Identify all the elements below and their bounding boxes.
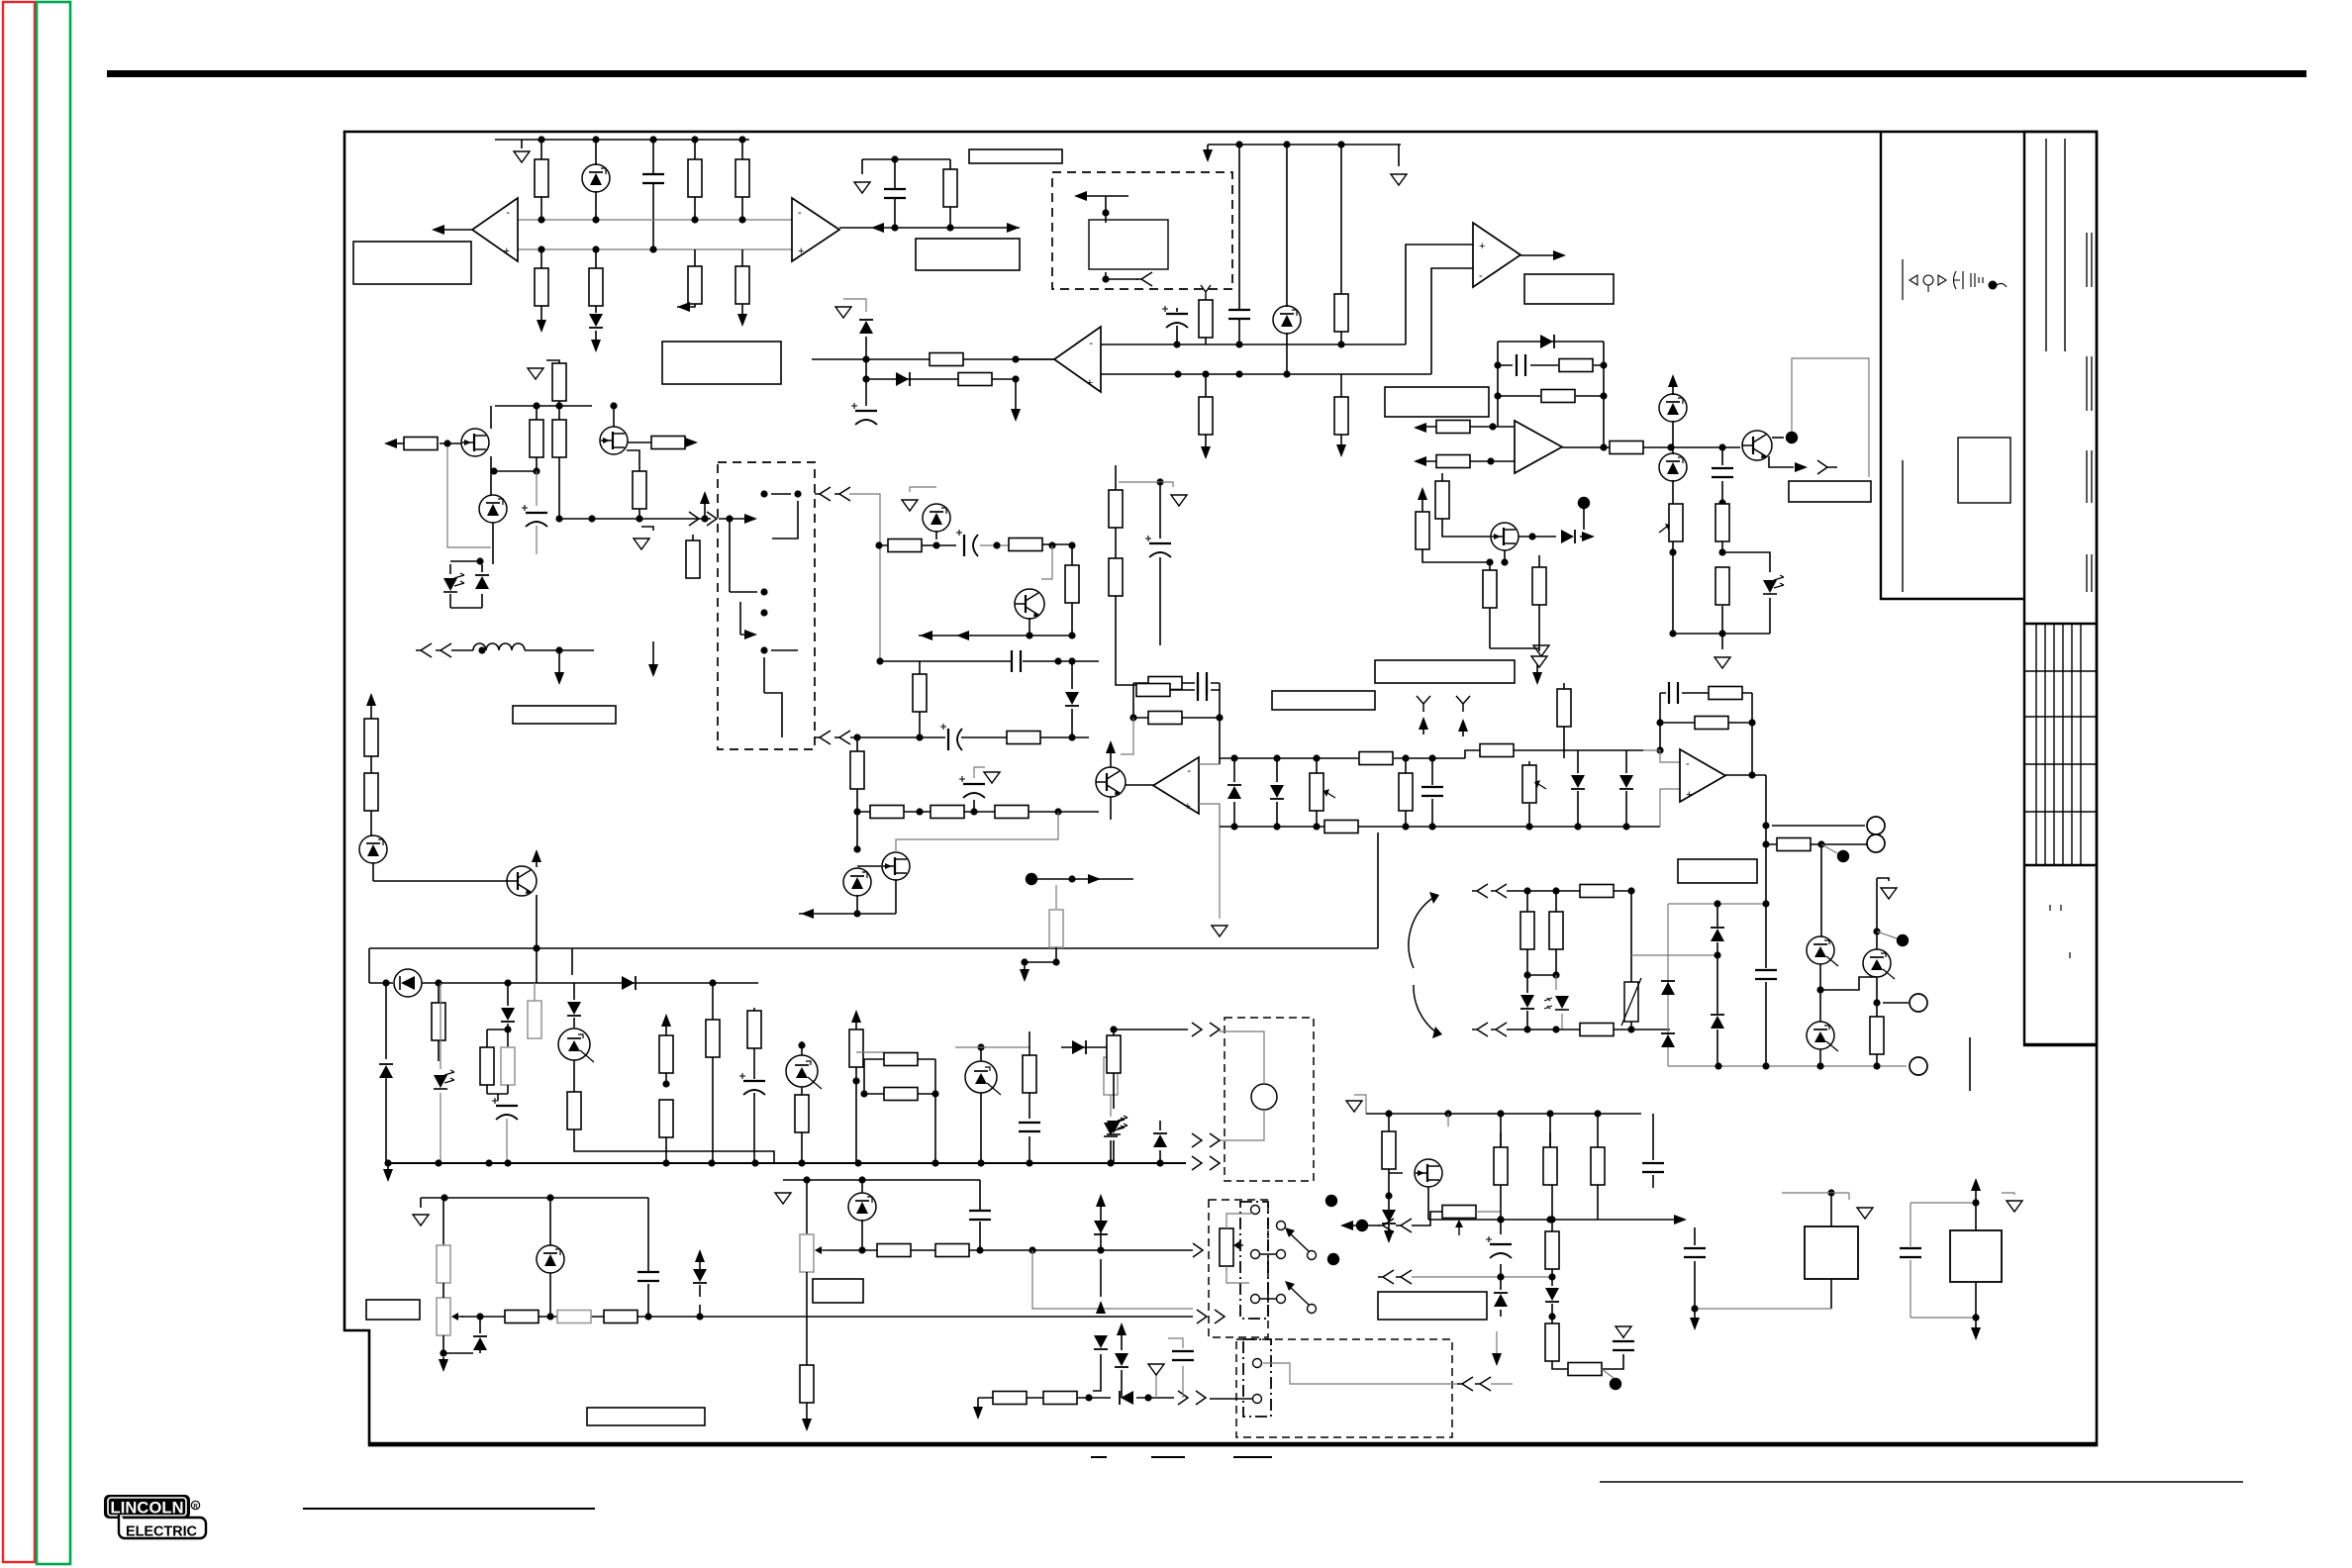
diode D20 [473, 1336, 487, 1350]
wire [856, 737, 858, 812]
wire [895, 880, 897, 914]
transient diode D27 [1115, 1353, 1128, 1367]
footer ticks [1091, 1456, 1272, 1458]
svg-text:-: - [1686, 758, 1690, 770]
junction [794, 490, 801, 497]
wire [1116, 465, 1136, 685]
resistor R18 [1541, 390, 1575, 403]
dashed enclosure [1052, 172, 1232, 289]
node [1325, 1195, 1337, 1207]
wire [704, 497, 706, 519]
wire [1412, 1212, 1442, 1225]
junction [1546, 1110, 1553, 1117]
zener D3 [1273, 306, 1301, 334]
label box [662, 342, 781, 384]
resistor R56 [1104, 1057, 1118, 1095]
wire [422, 982, 758, 984]
cable arc [1414, 985, 1436, 1032]
op-amp U4 [1054, 327, 1101, 392]
wire U1 output [436, 229, 472, 231]
arrow [956, 631, 969, 640]
potentiometer R57b [437, 1298, 450, 1335]
pot wiper [1327, 793, 1335, 798]
resistor R27 [651, 437, 685, 449]
wire [1671, 446, 1740, 448]
potentiometer R20 [1669, 504, 1683, 541]
junction [760, 588, 767, 595]
pot wiper [1458, 1224, 1460, 1235]
op-amp U2 [792, 198, 839, 261]
junction [1627, 887, 1634, 894]
wire feedback [1133, 683, 1220, 758]
wire [1344, 1225, 1380, 1226]
junction [1656, 719, 1663, 726]
wire [421, 1198, 648, 1208]
resistor R21 [1715, 504, 1729, 541]
wire [1447, 1114, 1449, 1127]
wire [1226, 1266, 1249, 1283]
arrow [802, 1419, 812, 1431]
junction [1129, 714, 1136, 721]
wire [1159, 1121, 1161, 1163]
junction [751, 1159, 758, 1166]
connector pin [1210, 1156, 1220, 1170]
label box [1524, 274, 1614, 304]
junction [662, 1159, 669, 1166]
polarized capacitor C5 [851, 403, 877, 425]
resistor R74 [1382, 1131, 1396, 1169]
resistor R45 [528, 1001, 541, 1038]
wire [641, 527, 653, 531]
junction [1552, 887, 1559, 894]
wire [828, 1249, 1193, 1251]
module box [1805, 1226, 1858, 1279]
wire [1159, 482, 1161, 645]
connector pin [834, 487, 850, 501]
junction [1574, 823, 1581, 830]
connector Y [1417, 696, 1430, 712]
junction [1156, 478, 1163, 485]
resistor R43 [480, 1047, 494, 1085]
connector pin [1197, 1310, 1207, 1323]
resistor R53 [884, 1053, 918, 1066]
junction [1714, 900, 1720, 907]
junction [1029, 1246, 1035, 1253]
junction [1594, 1110, 1601, 1117]
junction [1548, 1216, 1555, 1223]
transient diode D22 [693, 1269, 707, 1283]
switch contact [1277, 1250, 1286, 1259]
junction [1691, 1305, 1698, 1312]
svg-text:+: + [1087, 377, 1093, 389]
label box [1789, 481, 1871, 502]
arrow [1020, 969, 1029, 982]
wire [536, 855, 538, 983]
wire [540, 140, 542, 220]
wire [1239, 145, 1341, 309]
wire [694, 140, 696, 220]
resistor R14 [958, 373, 992, 386]
resistor R44 [501, 1047, 515, 1085]
arrow [532, 849, 541, 862]
junction [798, 1159, 805, 1166]
connector Y [1456, 696, 1470, 712]
arrow [1074, 191, 1087, 201]
op-amp U5 [1515, 421, 1562, 473]
diode D26 [1120, 1391, 1133, 1405]
junction [1144, 1394, 1151, 1401]
wire [1549, 1114, 1551, 1147]
title column inner line [2064, 139, 2066, 351]
top rule [107, 70, 2306, 77]
wire U5 output [1562, 446, 1671, 448]
wire [741, 249, 743, 319]
wire [806, 1180, 808, 1234]
arrow [1414, 456, 1426, 466]
wire [1538, 648, 1540, 651]
wire [1428, 1219, 1681, 1221]
svg-text:-: - [1187, 765, 1191, 777]
junction [931, 1159, 938, 1166]
label box [1375, 660, 1515, 683]
diode D16 [567, 1002, 581, 1016]
zener D23 [848, 1193, 876, 1221]
wire [536, 526, 538, 554]
revision tick [2087, 554, 2092, 592]
label box [813, 1279, 863, 1303]
junction [555, 402, 562, 409]
transistor Q5 [1015, 589, 1044, 619]
wire [1722, 552, 1770, 572]
arrow [1971, 1327, 1981, 1340]
footer rule left [303, 1508, 595, 1510]
connector pin [1457, 1377, 1473, 1391]
thyristor SCR3 [965, 1061, 1001, 1095]
arrow [1690, 1318, 1700, 1330]
connector pin [1215, 1310, 1225, 1323]
resistor R24 [404, 438, 438, 450]
junction [876, 657, 883, 664]
junction [592, 245, 599, 252]
ground [775, 1193, 791, 1204]
diode D34 [1619, 775, 1633, 789]
junction [1548, 1273, 1555, 1280]
wire [935, 531, 937, 539]
node [1837, 850, 1849, 862]
wire rail [1220, 826, 1465, 828]
wire [1527, 974, 1556, 976]
junction [1528, 533, 1535, 539]
junction [1283, 370, 1290, 377]
resistor R12 [1334, 397, 1348, 435]
wire [978, 1397, 1174, 1399]
title column inner line [2045, 139, 2047, 351]
node [1026, 873, 1037, 885]
wire [806, 1403, 808, 1423]
optocoupler LED [1107, 1116, 1127, 1134]
capacitor C10 [1012, 650, 1021, 672]
capacitor C1 [642, 174, 664, 183]
arrow [744, 630, 757, 639]
wire [1199, 764, 1220, 827]
resistor R22 [1715, 567, 1729, 605]
terminal [1910, 994, 1927, 1012]
resistor R46 [567, 1092, 581, 1129]
legend circle glyph [1923, 275, 1933, 285]
connector pin [707, 512, 717, 526]
wire op-amp input net [518, 248, 792, 250]
wire [1660, 789, 1680, 827]
capacitor C24 [1669, 682, 1678, 704]
junction [1552, 971, 1559, 978]
junction [1873, 1062, 1880, 1069]
capacitor C23 [1421, 787, 1443, 796]
arrow [1384, 1230, 1394, 1243]
switch contact [1251, 1206, 1260, 1215]
resistor R89 [1520, 912, 1534, 949]
wire long rail [369, 833, 1378, 948]
junction [1667, 443, 1674, 450]
wire rail [1220, 757, 1465, 759]
label box [1678, 859, 1757, 883]
notes inner rect [1958, 438, 2010, 503]
varistor RV1 [1621, 978, 1641, 1026]
ground [514, 151, 530, 162]
wire [1876, 878, 1878, 1066]
junction [1486, 558, 1493, 565]
capacitor C17 [969, 1211, 991, 1220]
junction [662, 1080, 669, 1087]
wire [1538, 555, 1540, 567]
junction [916, 734, 923, 740]
junction [852, 1077, 859, 1084]
capacitor C7 [1712, 468, 1733, 477]
wire [855, 1016, 857, 1163]
wire [1496, 1331, 1498, 1358]
zener D9 [479, 495, 507, 523]
wire [595, 140, 597, 220]
connector pin [1210, 1133, 1220, 1147]
title table grid [2024, 624, 2097, 865]
wire [627, 450, 639, 471]
polarized capacitor C13 [492, 1098, 518, 1120]
resistor R92 [1870, 1017, 1884, 1054]
junction [853, 845, 860, 852]
svg-text:+: + [1686, 789, 1692, 801]
junction [1873, 928, 1880, 934]
junction [504, 979, 511, 986]
switch arm [1290, 1287, 1309, 1305]
diode D35 [1520, 995, 1534, 1009]
junction [1230, 754, 1237, 761]
junction [853, 808, 860, 815]
wire [980, 544, 1010, 546]
connector pin [834, 731, 850, 744]
wire [910, 487, 936, 492]
resistor R41 [1049, 910, 1063, 947]
wire [1354, 1095, 1366, 1114]
wire [880, 544, 936, 546]
thyristor SCR2 [786, 1055, 822, 1089]
junction [1627, 1026, 1634, 1032]
diode D38 [1561, 530, 1575, 543]
wire [1119, 482, 1173, 487]
resistor R65 [993, 1392, 1027, 1405]
wire [1422, 721, 1424, 735]
svg-text:+: + [798, 245, 804, 257]
arrow [1582, 532, 1595, 541]
junction [504, 1026, 511, 1032]
junction [1762, 822, 1769, 829]
wire [894, 159, 896, 228]
connector pin [416, 643, 432, 657]
junction [636, 515, 642, 522]
wire [1528, 761, 1530, 827]
wire [490, 406, 492, 429]
wire [856, 1051, 884, 1053]
wire [1418, 460, 1515, 462]
connector pin [1178, 1391, 1188, 1405]
node [1578, 497, 1590, 509]
junction [538, 216, 544, 223]
resistor R17 [1559, 359, 1593, 372]
junction [691, 136, 698, 143]
wire [574, 1060, 774, 1163]
wire [2002, 1193, 2014, 1195]
transistor Q2 [461, 429, 489, 456]
module box [1950, 1230, 2002, 1282]
wire [1032, 1250, 1193, 1309]
junction [1497, 1273, 1504, 1280]
wire [857, 865, 882, 867]
wire feedback [1498, 395, 1604, 397]
wire [1673, 598, 1770, 649]
junction [977, 1159, 984, 1166]
wire [1071, 661, 1073, 737]
resistor R93 [1777, 838, 1811, 851]
junction [649, 245, 656, 252]
wire [801, 1041, 803, 1163]
junction [1718, 443, 1725, 450]
ground [528, 368, 543, 379]
wire [540, 249, 542, 325]
wire [487, 983, 508, 1047]
svg-text:+: + [1185, 801, 1191, 813]
resistor R66 [1043, 1392, 1077, 1405]
junction [726, 515, 733, 522]
wire [753, 1008, 755, 1163]
resistor R2 [688, 159, 702, 197]
junction [976, 1246, 983, 1253]
wire [812, 358, 1054, 360]
resistor R50 [747, 1011, 761, 1048]
switch contact [1308, 1305, 1317, 1314]
junction [592, 136, 599, 143]
junction [1156, 1159, 1163, 1166]
pot wiper [1659, 526, 1668, 533]
junction [1012, 375, 1019, 382]
wire [1500, 1132, 1502, 1317]
junction [1548, 1313, 1555, 1320]
label box [1378, 1292, 1487, 1320]
wire [1114, 1029, 1188, 1030]
wire feedback [1498, 364, 1604, 366]
junction [476, 557, 483, 564]
wire [369, 982, 393, 984]
resistor R52 [849, 1029, 863, 1067]
wire [1071, 545, 1073, 636]
junction [798, 1041, 805, 1048]
wire [385, 1074, 387, 1163]
junction [862, 355, 869, 362]
wire [1155, 1370, 1157, 1398]
resistor R8 [943, 169, 957, 207]
connector pin [1196, 1391, 1206, 1405]
wire [1877, 931, 1897, 938]
resistor R4 [535, 268, 548, 306]
wire [1110, 746, 1112, 820]
resistor R100 [1532, 567, 1546, 605]
capacitor C15 [1019, 1123, 1040, 1131]
wire [387, 1163, 389, 1174]
resistor R59 [557, 1311, 591, 1323]
wire [487, 1085, 508, 1101]
capacitor C29 [1198, 679, 1207, 701]
wire [595, 249, 597, 344]
resistor R88 [1580, 885, 1614, 898]
polarized capacitor C12 [959, 776, 985, 798]
wire [1340, 374, 1342, 449]
arrow [384, 439, 397, 448]
wire [440, 983, 441, 1163]
zener D7 [1659, 394, 1687, 422]
junction [533, 402, 539, 409]
optocoupler LED [1104, 1118, 1125, 1136]
junction [946, 224, 953, 231]
resistor R87 [1695, 717, 1728, 730]
capacitor C16 [637, 1272, 659, 1281]
cable arc [1409, 897, 1434, 968]
junction [993, 541, 1000, 548]
junction [533, 467, 539, 474]
resistor R86 [1709, 687, 1742, 700]
junction [1715, 1062, 1721, 1069]
junction [932, 541, 939, 548]
wire [369, 948, 572, 983]
resistor R35 [913, 674, 927, 712]
polarized capacitor C14 [739, 1073, 765, 1095]
junction [858, 1176, 865, 1183]
wire [919, 618, 1072, 636]
svg-text:R: R [193, 1505, 198, 1511]
arrow [432, 225, 444, 235]
junction [1600, 361, 1607, 368]
wire [980, 1047, 982, 1163]
wire [1975, 1203, 1977, 1230]
junction [875, 541, 882, 548]
switch contact [1277, 1222, 1286, 1230]
polarized capacitor C8 [522, 505, 547, 527]
junction [1235, 141, 1242, 147]
junction [533, 944, 539, 951]
optocoupler LED [443, 573, 464, 592]
wire [1716, 904, 1718, 1066]
potentiometer R61 [800, 1234, 814, 1272]
ground [1715, 657, 1730, 668]
junction [760, 490, 767, 497]
wire [536, 406, 538, 471]
op-amp U6 [1153, 757, 1199, 814]
